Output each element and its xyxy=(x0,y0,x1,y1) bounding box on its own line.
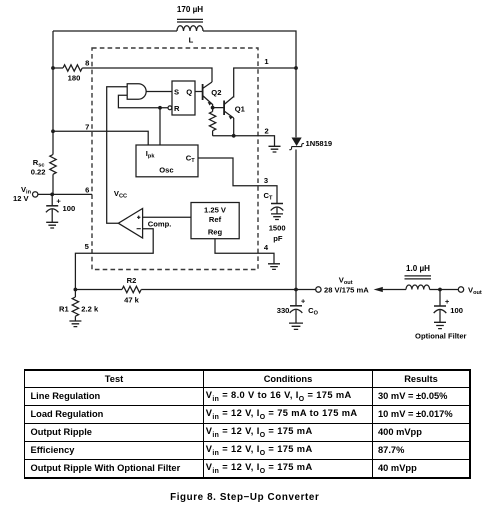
node junction output xyxy=(294,288,298,292)
transistor Q2 xyxy=(203,82,222,106)
ground filter cap xyxy=(434,322,446,328)
svg-text:1: 1 xyxy=(264,57,269,66)
svg-text:CT: CT xyxy=(264,191,273,202)
svg-text:Ref: Ref xyxy=(209,215,222,224)
wire pin8 to Q2 collector xyxy=(82,68,212,82)
resistor R2 47k xyxy=(75,276,296,304)
svg-text:Q1: Q1 xyxy=(235,105,246,114)
svg-text:100: 100 xyxy=(450,306,463,315)
svg-text:180: 180 xyxy=(68,74,81,83)
wire diode to output node xyxy=(295,150,297,290)
svg-text:3: 3 xyxy=(264,176,268,185)
wire left vertical rail xyxy=(52,31,54,155)
node junction pin7 xyxy=(51,129,55,133)
svg-text:Vout: Vout xyxy=(339,275,353,286)
table test results xyxy=(24,369,471,479)
dashed IC boundary box xyxy=(92,48,258,270)
reference regulator block xyxy=(191,203,239,239)
svg-text:1N5819: 1N5819 xyxy=(306,139,333,148)
svg-text:4: 4 xyxy=(264,243,269,252)
svg-text:330: 330 xyxy=(277,306,290,315)
capacitor 100 input xyxy=(46,194,75,222)
diode 1N5819 xyxy=(289,138,332,150)
svg-text:2: 2 xyxy=(264,126,268,135)
node junction pin1/diode xyxy=(294,66,298,70)
svg-text:12 V: 12 V xyxy=(13,194,30,203)
inverter bubble R input xyxy=(168,106,172,110)
node junction Q2 emitter xyxy=(211,106,215,110)
wire comparator plus input xyxy=(143,216,191,218)
terminal Vin xyxy=(33,192,38,197)
wire pin2 xyxy=(213,136,275,146)
svg-text:+: + xyxy=(56,196,61,205)
capacitor CT 1500pF xyxy=(271,204,284,214)
inductor L 170uH xyxy=(177,5,203,45)
arrow filter to output xyxy=(374,287,406,292)
svg-text:+: + xyxy=(301,297,306,306)
svg-text:R1: R1 xyxy=(59,304,69,313)
resistor Q2 emitter xyxy=(209,108,215,136)
svg-text:Comp.: Comp. xyxy=(148,220,172,229)
terminal Vout filter xyxy=(458,287,463,292)
wire comparator output to AND input xyxy=(107,87,128,224)
inductor filter 1.0uH xyxy=(405,264,432,290)
wire Q2 emitter to Q1 base xyxy=(213,104,225,108)
oscillator block xyxy=(136,145,198,177)
svg-text:+: + xyxy=(445,297,450,306)
svg-text:Q: Q xyxy=(186,87,192,96)
svg-text:R: R xyxy=(174,104,180,113)
svg-text:100: 100 xyxy=(63,204,76,213)
svg-text:7: 7 xyxy=(85,122,89,131)
svg-text:170 µH: 170 µH xyxy=(177,5,203,14)
svg-text:8: 8 xyxy=(85,59,89,68)
wire diode branch upper xyxy=(295,68,297,137)
svg-text:1.0 µH: 1.0 µH xyxy=(406,264,430,273)
wire pin6 xyxy=(38,193,92,195)
wire top rail left xyxy=(53,30,177,32)
svg-text:Q2: Q2 xyxy=(211,88,221,97)
svg-text:L: L xyxy=(189,35,194,44)
wire AND output to S xyxy=(146,91,172,93)
resistor Rsc 0.22 xyxy=(31,155,56,195)
wire pin7 to Osc xyxy=(53,131,148,145)
wire comparator minus feedback pin5 xyxy=(75,229,153,290)
wire pin1 from Q1 collector xyxy=(234,68,296,98)
node junction emitter rail xyxy=(232,134,236,138)
svg-text:R2: R2 xyxy=(127,276,137,285)
svg-text:1500: 1500 xyxy=(269,224,286,233)
svg-text:Reg: Reg xyxy=(208,227,223,236)
ground CO xyxy=(289,323,303,329)
transistor Q1 xyxy=(224,97,246,120)
svg-text:28 V/175 mA: 28 V/175 mA xyxy=(324,286,369,295)
wire top rail right xyxy=(203,31,296,68)
wire ref to pin4 xyxy=(215,239,274,264)
wire Q1 emitter down xyxy=(233,118,235,136)
svg-text:CO: CO xyxy=(308,306,318,317)
svg-text:Vout: Vout xyxy=(468,285,482,296)
ground pin4 xyxy=(268,264,280,270)
node junction Vin xyxy=(50,193,54,197)
svg-text:0.22: 0.22 xyxy=(31,167,46,176)
svg-text:6: 6 xyxy=(85,186,89,195)
svg-text:5: 5 xyxy=(85,242,90,251)
capacitor CO 330 xyxy=(277,290,319,323)
svg-text:VCC: VCC xyxy=(114,189,127,200)
wire R net to Osc xyxy=(159,108,161,145)
wire CT out to pin3 xyxy=(198,158,277,203)
wire AND lower input to R net xyxy=(118,95,167,108)
svg-text:S: S xyxy=(174,87,179,96)
wire output stub xyxy=(296,289,316,291)
svg-text:1.25 V: 1.25 V xyxy=(204,206,227,215)
svg-text:Osc: Osc xyxy=(159,165,173,174)
node junction pin8 xyxy=(51,66,55,70)
ground input cap xyxy=(46,222,58,228)
terminal Vout main xyxy=(316,287,321,292)
node junction R1 R2 pin5 xyxy=(74,288,78,292)
AND gate xyxy=(127,84,146,100)
node junction R net xyxy=(158,106,162,110)
wire filter right xyxy=(430,289,459,291)
resistor R1 2.2k xyxy=(59,290,99,321)
svg-text:Optional Filter: Optional Filter xyxy=(415,332,467,341)
svg-text:pF: pF xyxy=(273,234,283,243)
ground pin2 xyxy=(269,146,281,152)
capacitor filter 100 xyxy=(434,290,463,323)
comparator Comp xyxy=(118,209,171,239)
resistor 180 xyxy=(53,65,82,83)
svg-text:47 k: 47 k xyxy=(124,296,140,305)
ground CT xyxy=(271,214,283,220)
svg-text:2.2 k: 2.2 k xyxy=(81,304,99,313)
flip-flop latch xyxy=(172,81,195,115)
wire Q to Q2 base xyxy=(195,91,203,93)
ground R1 xyxy=(69,321,81,327)
node junction filter cap xyxy=(438,288,442,292)
